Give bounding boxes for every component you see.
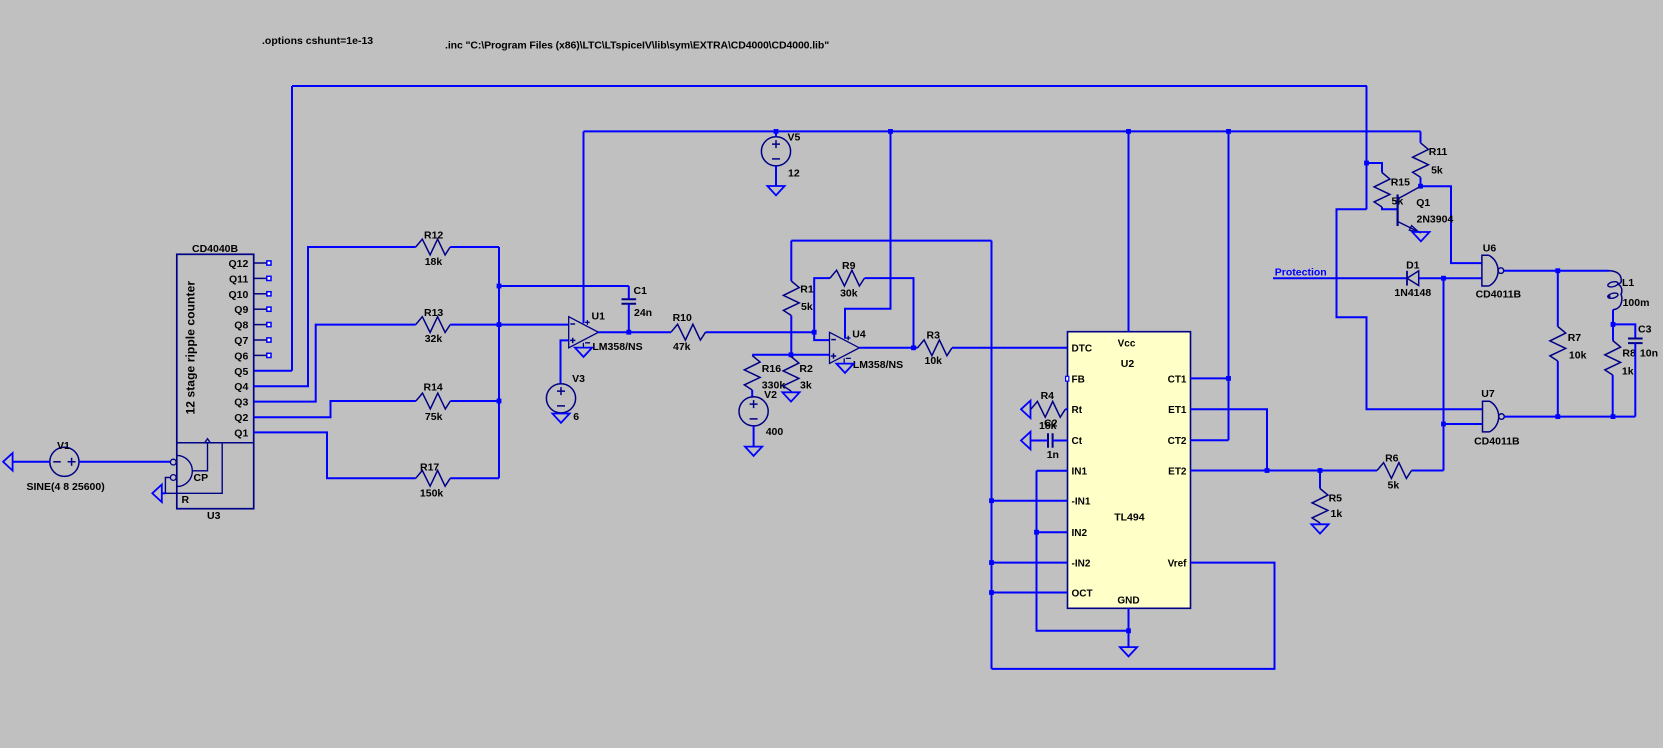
- value U4 LM358/NS: [853, 359, 903, 371]
- value SINE: [27, 481, 105, 493]
- svg-text:R17: R17: [420, 462, 439, 474]
- svg-text:U4: U4: [852, 329, 866, 341]
- value L1 100m: [1623, 297, 1650, 309]
- label L1: [1622, 277, 1634, 289]
- wire sum to U1 inv: [499, 324, 569, 326]
- ground U1 Vminus: [575, 348, 592, 357]
- wire R6 right: [1412, 470, 1444, 472]
- svg-text:SINE(4 8 25600): SINE(4 8 25600): [27, 481, 105, 493]
- wire U6 out: [1504, 270, 1558, 272]
- svg-text:2N3904: 2N3904: [1417, 214, 1454, 226]
- junction CT rail: [1226, 129, 1231, 134]
- label Q1: [1416, 197, 1430, 209]
- label 12 stage ripple counter: [183, 281, 197, 415]
- pin label DTC: [1072, 343, 1093, 354]
- wire GND pin: [1128, 608, 1130, 631]
- svg-text:R2: R2: [799, 363, 813, 375]
- svg-text:CD4011B: CD4011B: [1476, 289, 1522, 301]
- label CD4040B: [192, 243, 239, 255]
- wire U7 out: [1504, 416, 1635, 418]
- pin label Q8: [234, 320, 248, 332]
- transistor Q1: [1398, 186, 1421, 233]
- value C3 10n: [1640, 348, 1658, 360]
- svg-text:R16: R16: [762, 363, 781, 375]
- svg-text:10n: 10n: [1640, 348, 1658, 360]
- wire Q4 net: [254, 247, 416, 386]
- wire Q5 pin: [254, 370, 292, 372]
- resistor R9: [830, 270, 865, 286]
- label R3: [927, 330, 941, 342]
- value R3 10k: [925, 355, 943, 367]
- value R2 3k: [800, 380, 812, 392]
- capacitor C1: [622, 286, 637, 332]
- svg-text:Q12: Q12: [228, 258, 248, 270]
- junction U4 out: [911, 345, 916, 350]
- label C1: [634, 285, 648, 297]
- junction R5: [1318, 468, 1323, 473]
- svg-text:-IN1: -IN1: [1072, 497, 1091, 508]
- wire R9 right: [865, 278, 914, 348]
- svg-text:CP: CP: [194, 472, 209, 484]
- resistor R11: [1413, 143, 1429, 178]
- svg-text:CD4040B: CD4040B: [192, 243, 239, 255]
- label CP: [194, 472, 209, 484]
- label R16: [762, 363, 781, 375]
- gate U7 CD4011B: [1483, 401, 1505, 432]
- U3 R bubble: [170, 475, 176, 481]
- svg-text:Vref: Vref: [1168, 559, 1188, 570]
- wire rail to R11: [1420, 131, 1422, 142]
- svg-text:1n: 1n: [1047, 449, 1059, 461]
- value R9 30k: [840, 288, 858, 300]
- wire ET2: [1191, 470, 1378, 472]
- U3 clock gate: [177, 455, 193, 486]
- junction Q1 collector: [1418, 184, 1423, 189]
- junction sum R13: [497, 322, 502, 327]
- svg-text:C3: C3: [1638, 324, 1652, 336]
- pin label CT2: [1168, 436, 1187, 447]
- svg-text:Q5: Q5: [234, 366, 248, 378]
- voltage source V5: [761, 131, 790, 186]
- label R2: [799, 363, 813, 375]
- label V5: [788, 132, 801, 144]
- pin stub Q9: [254, 307, 271, 311]
- spice directive .inc CD4000 lib: [445, 40, 829, 52]
- IC U3 CD4040B body: [177, 254, 254, 508]
- svg-text:DTC: DTC: [1072, 343, 1093, 354]
- label U3: [207, 510, 221, 522]
- junction D1 net: [1441, 276, 1446, 281]
- pin label Q9: [234, 304, 248, 316]
- label R11: [1429, 146, 1448, 158]
- wire GND stem: [1128, 631, 1130, 647]
- wire Q1 net: [254, 432, 416, 478]
- pin label Ct: [1072, 436, 1083, 447]
- label R17: [420, 462, 439, 474]
- svg-text:ET2: ET2: [1168, 466, 1187, 477]
- pin label Q10: [228, 289, 248, 301]
- label R13: [424, 307, 443, 319]
- value V5 12: [788, 168, 800, 180]
- ground U4 Vminus: [836, 364, 853, 373]
- wire sum to C1: [499, 285, 629, 287]
- ground flag R4: [1021, 401, 1031, 419]
- junction ET1 ET2: [1265, 468, 1270, 473]
- pin label Q4: [234, 381, 248, 393]
- pin stub Q11: [254, 276, 271, 280]
- svg-text:IN2: IN2: [1072, 528, 1088, 539]
- svg-text:R1: R1: [800, 284, 814, 296]
- svg-text:6: 6: [573, 411, 579, 423]
- wire U4 out: [860, 347, 918, 349]
- junction U4 plus: [789, 352, 794, 357]
- svg-text:18k: 18k: [425, 256, 443, 268]
- pin label Vref: [1168, 559, 1188, 570]
- svg-text:47k: 47k: [673, 341, 691, 353]
- label U7: [1481, 388, 1495, 400]
- wire IN1: [1037, 470, 1068, 472]
- wire R1 feedback top: [791, 240, 991, 242]
- wire R3 to DTC: [952, 347, 1068, 349]
- wire D1 net drop: [1443, 278, 1445, 470]
- label R8: [1622, 348, 1636, 360]
- ground flag C2: [1021, 432, 1031, 450]
- svg-text:Vcc: Vcc: [1118, 339, 1136, 350]
- wire U1 V+ drop: [583, 131, 585, 323]
- net label Protection: [1275, 267, 1327, 279]
- wire V+ supply rail: [584, 130, 1421, 132]
- svg-text:R9: R9: [842, 260, 856, 272]
- svg-text:400: 400: [766, 426, 784, 438]
- junction R7 bottom: [1555, 414, 1560, 419]
- label D1: [1406, 260, 1420, 272]
- label C2: [1044, 418, 1058, 430]
- label R9: [842, 260, 856, 272]
- svg-text:1k: 1k: [1331, 508, 1343, 520]
- pin stub Q10: [254, 292, 271, 296]
- U3 CP bubble: [170, 459, 176, 465]
- pin label Vcc: [1118, 339, 1136, 350]
- svg-text:C1: C1: [634, 285, 648, 297]
- svg-text:U7: U7: [1481, 388, 1495, 400]
- junction -IN1: [989, 498, 994, 503]
- svg-text:C2: C2: [1044, 418, 1058, 430]
- svg-text:10k: 10k: [1569, 350, 1587, 362]
- svg-text:R15: R15: [1391, 177, 1410, 189]
- wire R12 right: [450, 246, 499, 248]
- wire Vref return: [992, 563, 1275, 669]
- svg-text:3k: 3k: [800, 380, 812, 392]
- svg-text:Q6: Q6: [234, 350, 248, 362]
- svg-text:L1: L1: [1622, 277, 1634, 289]
- wire feedback vertical: [991, 241, 993, 669]
- resistor R16: [744, 356, 760, 398]
- value R12 18k: [425, 256, 443, 268]
- svg-text:CT2: CT2: [1168, 436, 1187, 447]
- svg-text:OCT: OCT: [1072, 588, 1093, 599]
- ground U2: [1120, 647, 1137, 656]
- wire V1 to CP: [79, 461, 170, 463]
- ground V3: [552, 414, 569, 423]
- wire -IN2: [992, 562, 1068, 564]
- value U7 CD4011B: [1474, 436, 1520, 448]
- pin FB open marker: [1066, 376, 1069, 381]
- value U1 LM358/NS: [592, 341, 642, 353]
- IC U2 TL494 body: [1068, 332, 1191, 609]
- junction IN2: [1034, 530, 1039, 535]
- wire C3 bottom: [1634, 343, 1636, 417]
- pin label Rt: [1072, 405, 1083, 416]
- resistor R5: [1312, 489, 1328, 524]
- svg-text:CD4011B: CD4011B: [1474, 436, 1520, 448]
- op-amp U1: [569, 317, 599, 348]
- label R12: [424, 230, 443, 242]
- wire collector to U6A: [1421, 186, 1482, 263]
- junction R8 bottom: [1611, 414, 1616, 419]
- op-amp U4: [830, 332, 860, 363]
- label R6: [1385, 453, 1399, 465]
- wire CT drop: [1228, 131, 1230, 440]
- svg-text:GND: GND: [1117, 595, 1139, 606]
- svg-text:5k: 5k: [1388, 480, 1400, 492]
- svg-text:R3: R3: [927, 330, 941, 342]
- label U1: [592, 311, 606, 323]
- svg-text:V5: V5: [788, 132, 801, 144]
- pin label Q3: [234, 397, 248, 409]
- wire R15 top lead: [1367, 163, 1383, 173]
- ground flag U3 reset: [152, 485, 162, 503]
- junction GND: [1126, 628, 1131, 633]
- value R6 5k: [1388, 480, 1400, 492]
- label V2: [764, 389, 777, 401]
- value R16 330k: [762, 380, 786, 392]
- junction U6 out: [1555, 268, 1560, 273]
- wire Q2 net: [254, 401, 416, 417]
- svg-text:R5: R5: [1329, 493, 1343, 505]
- junction CT1: [1226, 376, 1231, 381]
- capacitor C3: [1628, 339, 1643, 344]
- wire IN2: [1037, 531, 1068, 533]
- svg-text:Protection: Protection: [1275, 267, 1327, 279]
- voltage source V3: [546, 384, 575, 413]
- ground R5: [1311, 524, 1328, 533]
- voltage source V1: [50, 447, 79, 476]
- svg-text:75k: 75k: [425, 411, 443, 423]
- label R10: [673, 312, 692, 324]
- svg-text:Q4: Q4: [234, 381, 248, 393]
- wire R10 to U4: [706, 331, 815, 333]
- svg-text:ET1: ET1: [1168, 405, 1187, 416]
- junction V5 rail: [774, 129, 779, 134]
- label C3: [1638, 324, 1652, 336]
- pin label FB: [1072, 374, 1085, 385]
- pin stub Q6: [254, 353, 271, 357]
- value Q1 2N3904: [1417, 214, 1454, 226]
- resistor R8: [1605, 341, 1621, 376]
- svg-text:R13: R13: [424, 307, 443, 319]
- svg-text:R7: R7: [1568, 332, 1582, 344]
- junction sum C1: [497, 284, 502, 289]
- label U4: [852, 329, 866, 341]
- ground V5: [767, 186, 784, 195]
- svg-text:.inc "C:\Program Files (x86)\L: .inc "C:\Program Files (x86)\LTC\LTspice…: [445, 40, 829, 52]
- value C1 24n: [634, 307, 652, 319]
- label R14: [424, 382, 443, 394]
- label V3: [572, 373, 585, 385]
- junction sum R14: [497, 399, 502, 404]
- ground V2: [745, 447, 762, 456]
- value R4 18k: [1039, 420, 1057, 432]
- svg-text:TL494: TL494: [1114, 512, 1145, 524]
- svg-text:1k: 1k: [1622, 366, 1634, 378]
- pin stub Q12: [254, 261, 271, 265]
- wire Q3 net: [254, 325, 416, 402]
- pin label Q2: [234, 412, 248, 424]
- svg-text:U3: U3: [207, 510, 221, 522]
- pin label OCT: [1072, 588, 1093, 599]
- wire R8 top lead: [1612, 324, 1614, 340]
- value R5 1k: [1331, 508, 1343, 520]
- svg-text:30k: 30k: [840, 288, 858, 300]
- svg-text:.options cshunt=1e-13: .options cshunt=1e-13: [262, 35, 373, 47]
- resistor R13: [416, 317, 451, 333]
- diode D1: [1407, 271, 1419, 286]
- capacitor C2: [1031, 433, 1068, 448]
- pin stub Q8: [254, 323, 271, 327]
- pin label IN1: [1072, 467, 1088, 478]
- ground R2: [782, 392, 799, 401]
- svg-text:LM358/NS: LM358/NS: [853, 359, 903, 371]
- value R7 10k: [1569, 350, 1587, 362]
- svg-text:Rt: Rt: [1072, 405, 1083, 416]
- svg-text:R10: R10: [673, 312, 692, 324]
- junction U4 inv: [812, 330, 817, 335]
- wire D1 to U6B: [1419, 277, 1482, 279]
- value R8 1k: [1622, 366, 1634, 378]
- wire V2 bottom: [753, 426, 755, 447]
- wire L1 bottom: [1612, 310, 1614, 325]
- svg-text:24n: 24n: [634, 307, 652, 319]
- wire reset flag: [162, 492, 166, 494]
- wire rail drop R15: [1366, 86, 1368, 209]
- svg-text:Ct: Ct: [1072, 436, 1083, 447]
- svg-text:R12: R12: [424, 230, 443, 242]
- svg-text:-IN2: -IN2: [1072, 559, 1091, 570]
- wire Vcc: [1128, 131, 1130, 331]
- label R1: [800, 284, 814, 296]
- svg-text:12: 12: [788, 168, 800, 180]
- wire OCT: [992, 592, 1068, 594]
- junction L1 R8 C3: [1611, 322, 1616, 327]
- label U2: [1121, 358, 1135, 370]
- value R11 5k: [1431, 165, 1443, 177]
- wire net to U7A: [1337, 209, 1483, 409]
- value V2 400: [766, 426, 784, 438]
- svg-text:12 stage ripple counter: 12 stage ripple counter: [183, 281, 197, 415]
- junction U4 rail: [888, 129, 893, 134]
- svg-text:U1: U1: [592, 311, 606, 323]
- wire U1 out: [598, 331, 671, 333]
- label R15: [1391, 177, 1410, 189]
- value R17 150k: [420, 488, 444, 500]
- pin label IN2: [1072, 528, 1088, 539]
- svg-text:R6: R6: [1385, 453, 1399, 465]
- wire R13 right: [450, 324, 499, 326]
- svg-text:Q11: Q11: [229, 273, 248, 285]
- svg-text:Q9: Q9: [234, 304, 248, 316]
- pin stub Q7: [254, 338, 271, 342]
- wire R17 right: [450, 477, 499, 479]
- pin label Q11: [229, 273, 248, 285]
- junction U7B tap: [1441, 422, 1446, 427]
- svg-text:32k: 32k: [425, 333, 443, 345]
- wire to U7B: [1444, 423, 1483, 425]
- U3 reset hook: [165, 443, 222, 494]
- svg-text:V2: V2: [764, 389, 777, 401]
- svg-text:U6: U6: [1483, 243, 1497, 255]
- wire CT2: [1191, 439, 1229, 441]
- value U6 CD4011B: [1476, 289, 1522, 301]
- resistor R1: [783, 241, 799, 355]
- junction -IN2: [989, 560, 994, 565]
- svg-text:150k: 150k: [420, 488, 444, 500]
- wire C3 top: [1613, 324, 1635, 338]
- svg-text:100m: 100m: [1623, 297, 1650, 309]
- value R13 32k: [425, 333, 443, 345]
- U3 clock arrow: [192, 439, 210, 471]
- wire IN1-IN2 vertical: [1037, 471, 1129, 631]
- svg-text:D1: D1: [1406, 260, 1420, 272]
- svg-text:R: R: [182, 494, 190, 506]
- resistor R2: [783, 357, 799, 393]
- svg-text:R11: R11: [1429, 146, 1448, 158]
- label V1: [57, 440, 70, 452]
- voltage source V2: [739, 397, 768, 426]
- wire R8 bottom lead: [1612, 375, 1614, 417]
- wire R14 right: [450, 400, 499, 402]
- ground Q1 emitter: [1412, 232, 1429, 241]
- junction OCT: [989, 590, 994, 595]
- pin label Q7: [234, 335, 248, 347]
- wire CT1: [1191, 377, 1229, 379]
- label R: [182, 494, 190, 506]
- pin label Q6: [234, 350, 248, 362]
- resistor R10: [671, 324, 706, 340]
- value R10 47k: [673, 341, 691, 353]
- value C2 1n: [1047, 449, 1059, 461]
- wire R9 net: [814, 278, 830, 332]
- pin label CT1: [1168, 374, 1187, 385]
- wire top rail Q5 feedback: [292, 85, 1367, 87]
- svg-text:FB: FB: [1072, 374, 1085, 385]
- resistor R7: [1550, 327, 1566, 362]
- wire ET1: [1191, 409, 1268, 470]
- wire R7 bottom lead: [1557, 361, 1559, 417]
- gate U6 CD4011B: [1482, 255, 1504, 286]
- junction U1 out C1: [626, 330, 631, 335]
- label R4: [1041, 390, 1055, 402]
- wire R5 bottom: [1319, 523, 1321, 524]
- wire left vertical Q5 to rail: [291, 86, 293, 371]
- wire Protection: [1273, 277, 1407, 279]
- svg-text:V1: V1: [57, 440, 70, 452]
- pin label Q12: [228, 258, 248, 270]
- inductor L1: [1607, 271, 1622, 310]
- wire R5 top: [1319, 471, 1321, 489]
- value D1 1N4148: [1394, 287, 1431, 299]
- resistor R17: [416, 470, 451, 486]
- wire R7 top: [1557, 271, 1559, 327]
